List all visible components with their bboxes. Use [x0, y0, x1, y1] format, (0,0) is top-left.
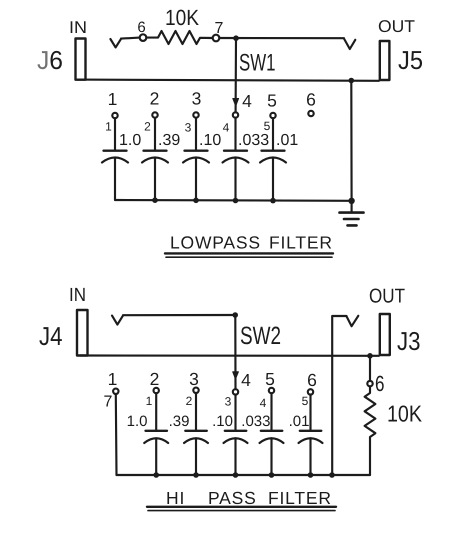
svg-text:.01: .01 [276, 132, 298, 149]
svg-text:1.0: 1.0 [127, 413, 148, 430]
svg-text:3: 3 [185, 121, 192, 135]
svg-text:6: 6 [307, 370, 317, 390]
svg-text:FILTER: FILTER [269, 233, 333, 253]
svg-text:1.0: 1.0 [119, 132, 141, 149]
svg-text:J4: J4 [39, 321, 63, 351]
svg-text:1: 1 [108, 89, 118, 109]
svg-text:IN: IN [69, 285, 86, 306]
svg-text:.39: .39 [158, 132, 180, 149]
svg-text:2: 2 [150, 369, 160, 389]
svg-text:3: 3 [225, 395, 232, 409]
svg-text:1: 1 [146, 394, 153, 408]
svg-text:J6: J6 [37, 45, 63, 75]
svg-text:LOWPASS: LOWPASS [170, 233, 261, 253]
svg-text:4: 4 [242, 91, 252, 111]
svg-text:3: 3 [192, 89, 202, 109]
svg-text:.033: .033 [241, 413, 270, 430]
svg-text:7: 7 [104, 394, 113, 411]
svg-text:HI: HI [166, 488, 185, 508]
svg-text:1: 1 [105, 120, 112, 134]
svg-text:4: 4 [260, 396, 267, 410]
svg-text:.10: .10 [199, 132, 221, 149]
svg-text:6: 6 [375, 371, 385, 396]
svg-text:J5: J5 [398, 45, 423, 75]
svg-text:10K: 10K [165, 5, 199, 30]
svg-text:6: 6 [137, 19, 145, 36]
svg-text:2: 2 [150, 89, 160, 109]
svg-text:.033: .033 [238, 132, 269, 149]
svg-text:FILTER: FILTER [268, 488, 332, 508]
svg-text:SW2: SW2 [240, 322, 281, 350]
svg-text:7: 7 [215, 20, 224, 37]
svg-text:6: 6 [306, 90, 316, 110]
svg-text:2: 2 [144, 120, 151, 134]
svg-text:OUT: OUT [378, 17, 415, 36]
svg-text:OUT: OUT [369, 286, 405, 308]
svg-text:4: 4 [223, 121, 230, 135]
svg-text:SW1: SW1 [239, 50, 276, 77]
svg-text:PASS: PASS [208, 488, 257, 508]
svg-text:.10: .10 [212, 413, 233, 430]
svg-text:4: 4 [241, 370, 251, 390]
svg-text:3: 3 [189, 369, 199, 389]
svg-text:J3: J3 [397, 326, 421, 356]
svg-text:5: 5 [264, 119, 271, 133]
svg-text:5: 5 [267, 91, 277, 111]
svg-text:2: 2 [186, 394, 193, 408]
svg-text:.39: .39 [169, 413, 190, 430]
svg-text:IN: IN [69, 18, 87, 37]
svg-text:10K: 10K [387, 401, 423, 427]
svg-text:5: 5 [265, 369, 275, 389]
svg-text:5: 5 [302, 394, 309, 408]
svg-text:.01: .01 [289, 413, 310, 430]
svg-text:1: 1 [108, 369, 118, 389]
